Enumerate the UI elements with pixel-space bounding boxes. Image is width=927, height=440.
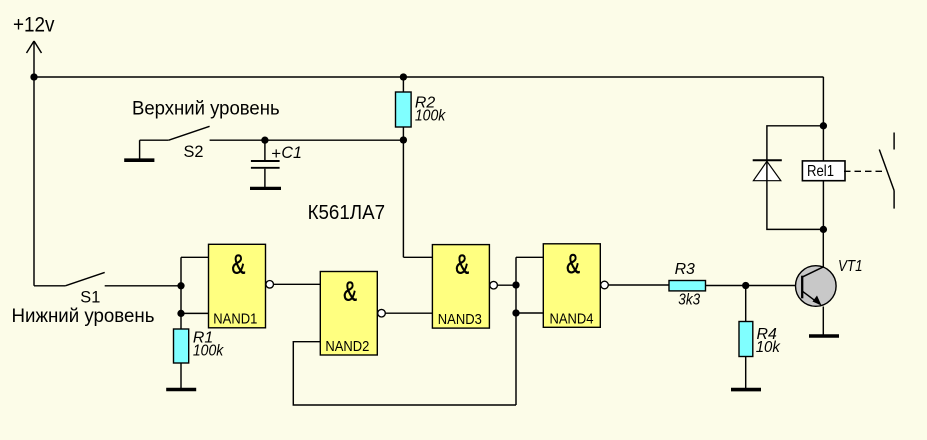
wire NAND1 in1 — [181, 256, 209, 258]
wire R3 to base — [706, 285, 803, 287]
wire S1 to NAND1 column — [105, 285, 181, 287]
wire left vertical rail — [33, 41, 35, 286]
junction R1 top — [177, 310, 184, 317]
NAND3 output bubble — [490, 281, 498, 289]
wire NAND1 in2 — [181, 312, 209, 314]
wire top rail — [34, 76, 824, 78]
dashed link to contact — [844, 170, 884, 172]
junction C1 top — [261, 137, 268, 144]
wire NAND3 in1 — [403, 256, 432, 258]
switch S2 — [140, 126, 210, 159]
junction relay top — [820, 122, 827, 129]
svg-text:Rel1: Rel1 — [807, 163, 834, 180]
svg-text:&: & — [566, 248, 580, 279]
svg-text:S1: S1 — [80, 288, 100, 306]
NAND2 output bubble — [378, 309, 386, 317]
wire NAND2 out to NAND3 in2 — [385, 312, 432, 314]
relay contact — [879, 133, 894, 209]
wire NAND4 input column — [515, 257, 517, 405]
NAND1 output bubble — [266, 281, 274, 289]
wire diode branch — [767, 126, 824, 230]
svg-text:Нижний уровень: Нижний уровень — [12, 305, 155, 327]
ground under S2 — [124, 158, 154, 162]
ground under R1 — [166, 388, 196, 392]
svg-text:&: & — [455, 249, 469, 280]
wire S2 to R2 bottom — [210, 139, 404, 141]
wire R2 top — [402, 77, 404, 92]
relay Rel1 — [802, 161, 845, 181]
wire NAND3 out to node — [497, 284, 516, 286]
NAND gate NAND3 — [432, 245, 489, 329]
svg-text:NAND3: NAND3 — [438, 312, 482, 328]
svg-text:&: & — [232, 248, 246, 279]
svg-text:S2: S2 — [184, 143, 204, 161]
wire emitter down — [822, 307, 824, 335]
ground under VT1 emitter — [809, 334, 839, 338]
resistor R2 — [396, 92, 412, 127]
svg-text:3k3: 3k3 — [678, 292, 700, 309]
svg-text:&: & — [343, 276, 357, 307]
wire feedback to NAND2 in2 — [293, 342, 516, 405]
wire collector up — [822, 229, 824, 266]
svg-text:VT1: VT1 — [838, 258, 863, 275]
svg-text:+: + — [271, 144, 281, 163]
junction NAND4 in2 node — [512, 309, 519, 316]
junction S1 node — [177, 282, 184, 289]
ground under R4 — [731, 388, 761, 392]
junction R2 top — [400, 73, 407, 80]
wire R2 to NAND3 in1 vertical — [402, 140, 404, 257]
svg-text:NAND1: NAND1 — [213, 312, 257, 328]
svg-text:NAND2: NAND2 — [325, 339, 369, 355]
resistor R4 — [739, 322, 753, 357]
svg-text:Верхний уровень: Верхний уровень — [132, 98, 280, 120]
svg-text:+12v: +12v — [13, 11, 55, 36]
junction top-left — [30, 73, 37, 80]
wire R4 top — [745, 286, 747, 322]
wire NAND1 input column — [180, 257, 182, 329]
NAND gate NAND2 — [320, 272, 377, 356]
svg-text:C1: C1 — [281, 144, 302, 162]
wire relay branch vertical — [822, 77, 824, 229]
wire R1 bottom — [180, 363, 182, 388]
svg-text:100k: 100k — [415, 108, 446, 125]
NAND gate NAND4 — [543, 244, 600, 328]
ground under C1 — [250, 187, 281, 190]
wire NAND4 out to R3 — [608, 284, 669, 286]
junction R4 top — [742, 282, 749, 289]
transistor VT1 — [796, 266, 837, 307]
power arrow +12v — [27, 41, 42, 53]
wire NAND1 out to NAND2 in1 — [274, 283, 321, 285]
wire R2 bottom — [402, 127, 404, 140]
resistor R3 — [669, 281, 706, 291]
wire R4 bottom — [745, 357, 747, 389]
svg-text:К561ЛА7: К561ЛА7 — [308, 202, 385, 224]
svg-text:100k: 100k — [193, 343, 224, 360]
switch S1 — [34, 272, 105, 285]
NAND gate NAND1 — [209, 244, 266, 327]
junction NAND3 out — [512, 281, 519, 288]
junction relay bottom — [820, 226, 827, 233]
diode VD1 (flyback) — [753, 161, 780, 180]
wire NAND4 in2 — [516, 312, 543, 314]
junction R2 bottom — [400, 136, 407, 143]
svg-text:R3: R3 — [675, 261, 695, 278]
capacitor C1 — [251, 140, 280, 187]
NAND4 output bubble — [601, 281, 609, 289]
wire NAND4 in1 — [516, 256, 543, 258]
svg-text:NAND4: NAND4 — [550, 312, 594, 328]
svg-text:10k: 10k — [756, 339, 781, 356]
resistor R1 — [174, 329, 189, 363]
